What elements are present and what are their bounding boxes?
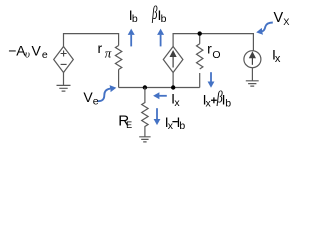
svg-text:X: X bbox=[283, 17, 289, 27]
svg-text:b: b bbox=[179, 120, 185, 132]
wire: r_O top lead bbox=[199, 34, 201, 44]
current arrow I_x (blue, left) bbox=[159, 95, 167, 97]
minus sign inside voltage source bbox=[61, 63, 67, 65]
label I_X right of source bbox=[272, 47, 281, 66]
wire: r_O bottom lead bbox=[199, 73, 201, 88]
pointer arrow V_e (blue squiggle) bbox=[97, 89, 110, 102]
label V_e bbox=[83, 89, 98, 107]
svg-text:π: π bbox=[105, 46, 112, 61]
svg-text:r: r bbox=[207, 40, 212, 56]
arrow inside I_X source bbox=[250, 53, 255, 65]
dependent current source beta*Ib diamond bbox=[163, 47, 183, 73]
current arrow I_b (blue, up) bbox=[130, 35, 132, 47]
junction dot at r_O top on right rail bbox=[198, 31, 202, 35]
label V_X bbox=[274, 10, 290, 27]
wire: voltage source bottom lead to ground bbox=[63, 73, 65, 86]
label beta*I_b bbox=[151, 3, 166, 25]
arrow inside dependent current source bbox=[171, 51, 176, 67]
ground under voltage source bbox=[57, 85, 71, 91]
label r_O bbox=[207, 40, 220, 61]
ground under I_X source bbox=[246, 81, 259, 86]
current arrow I_x minus I_b (blue, down) bbox=[156, 108, 158, 119]
label I_x+beta*I_b bbox=[203, 89, 232, 110]
label -AvVe bbox=[8, 42, 48, 60]
plus sign inside voltage source bbox=[61, 51, 67, 57]
resistor r_O zigzag body bbox=[197, 44, 203, 69]
svg-text:b: b bbox=[225, 98, 231, 110]
svg-text:x: x bbox=[206, 98, 212, 110]
svg-text:V: V bbox=[274, 10, 284, 26]
svg-text:−: − bbox=[8, 42, 16, 58]
label I_x at left arrow bbox=[171, 90, 180, 109]
wire: bottom emitter rail bbox=[119, 87, 200, 89]
resistor r_pi zigzag body bbox=[115, 46, 121, 70]
svg-text:V: V bbox=[32, 42, 42, 58]
junction dot at R_E tap on emitter rail bbox=[143, 85, 147, 89]
svg-text:O: O bbox=[212, 49, 220, 61]
pointer arrow V_X (blue squiggle) bbox=[262, 23, 273, 32]
svg-text:b: b bbox=[161, 13, 167, 25]
wire: left top rail from voltage source up and over to r_pi bbox=[64, 34, 119, 47]
svg-text:υ: υ bbox=[25, 49, 30, 61]
wire: right top rail from dep. source over to I_X source bbox=[173, 34, 253, 52]
svg-text:x: x bbox=[174, 97, 180, 109]
wire: I_X source bottom lead bbox=[251, 68, 253, 81]
junction dot at emitter rail / dep source bbox=[171, 85, 175, 89]
ground under R_E bbox=[139, 137, 150, 142]
wire: dep. current source bottom lead bbox=[172, 73, 174, 88]
resistor R_E with leads bbox=[142, 88, 148, 137]
label r_pi bbox=[98, 40, 112, 61]
current arrow beta*I_b (blue, up) bbox=[160, 35, 162, 47]
svg-text:b: b bbox=[132, 13, 138, 25]
svg-text:r: r bbox=[98, 40, 103, 56]
svg-text:e: e bbox=[42, 49, 48, 61]
independent current source I_X circle bbox=[244, 51, 261, 68]
label I_b bbox=[129, 7, 138, 25]
wire: r_pi bottom lead down to emitter rail bbox=[118, 70, 120, 88]
svg-text:e: e bbox=[93, 95, 99, 107]
dependent voltage source -AvVe diamond bbox=[54, 47, 74, 73]
current arrow I_x+beta*I_b (blue, down) bbox=[210, 72, 212, 81]
svg-text:E: E bbox=[126, 120, 132, 130]
label R_E bbox=[118, 113, 132, 130]
svg-text:x: x bbox=[275, 53, 281, 65]
label I_x minus I_b bbox=[165, 114, 186, 132]
